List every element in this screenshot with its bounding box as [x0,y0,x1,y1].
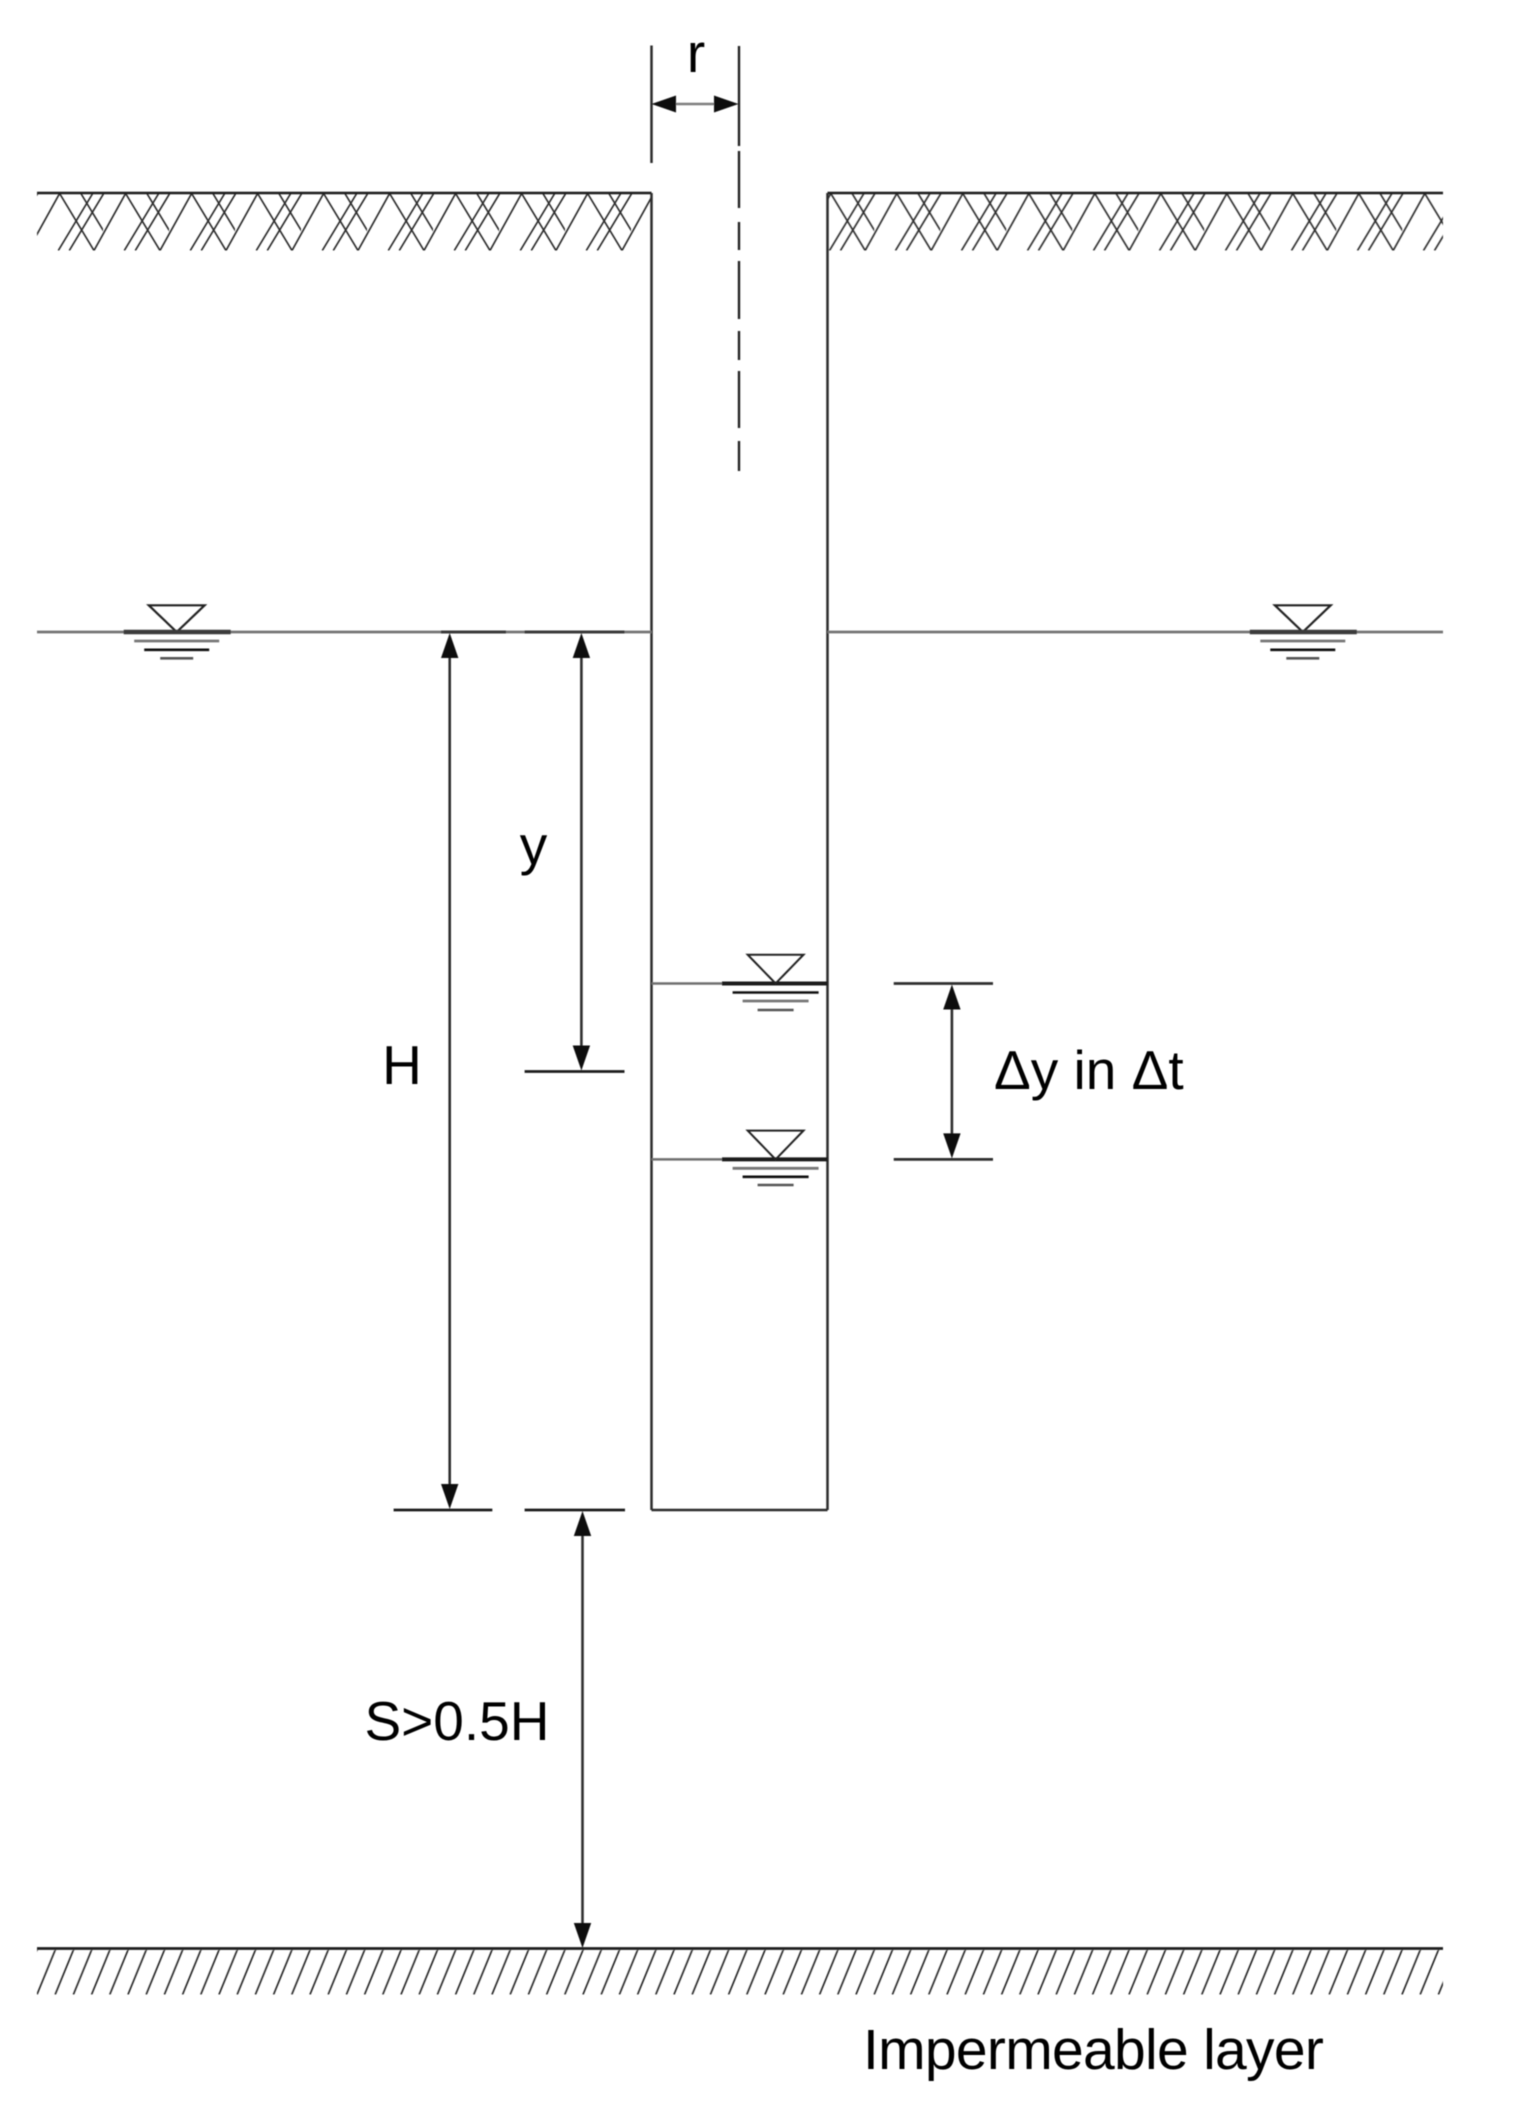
water table symbol right [1250,605,1357,658]
dimension H vertical double arrow [441,633,458,1509]
borehole bottom [652,1509,828,1512]
water level inside borehole (lower) [652,1131,828,1185]
svg-text:r: r [687,22,705,84]
ground hatch left [37,194,652,251]
svg-text:H: H [382,1034,422,1096]
dimension S top tick [525,1509,625,1512]
borehole casing left wall [650,193,653,1510]
borehole casing right wall [826,193,829,1510]
impermeable layer hatch [37,1950,1443,1995]
water table symbol left [124,605,231,658]
dimension dy upper reference line [894,982,993,985]
impermeable layer line [37,1947,1443,1950]
dimension S vertical double arrow [574,1511,591,1948]
dimension H bottom tick [394,1509,493,1512]
svg-text:Δy in Δt: Δy in Δt [994,1039,1184,1101]
ground surface line right [828,192,1444,195]
borehole centerline (dash-dot) [738,46,740,471]
dimension dy lower reference line [894,1158,993,1161]
dimension y vertical double arrow [573,633,590,1071]
dimension dy vertical double arrow [943,985,960,1159]
dimension reference dash on water line (H) [441,631,506,634]
svg-text:S>0.5H: S>0.5H [365,1690,550,1752]
ground surface line left [37,192,652,195]
borehole casing left wall top stub [650,46,653,164]
ground hatch right [828,194,1444,251]
dimension reference dash on water line (y) [525,631,625,634]
water table line right [828,631,1444,634]
svg-text:y: y [520,814,548,876]
dimension arrow r (double-headed) [652,96,739,113]
water table line left [37,631,652,634]
dimension y bottom tick [525,1070,625,1073]
svg-text:Impermeable layer: Impermeable layer [863,2018,1324,2082]
water level inside borehole (upper) [652,955,828,1010]
